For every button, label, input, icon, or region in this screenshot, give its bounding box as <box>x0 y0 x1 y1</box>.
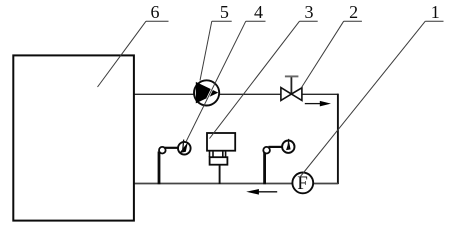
wire: bottom return pipe <box>134 183 338 185</box>
svg-text:6: 6 <box>151 2 160 22</box>
svg-text:1: 1 <box>431 2 440 22</box>
leader line 1 <box>300 21 425 177</box>
svg-text:4: 4 <box>254 2 263 22</box>
svg-text:F: F <box>297 173 308 194</box>
leader line 2 <box>302 21 344 87</box>
label 6 <box>146 2 169 22</box>
tank 6 <box>13 55 134 220</box>
leader line 3 <box>210 21 300 138</box>
flow arrow (leftward, bottom) <box>246 189 277 195</box>
gauge (unlabeled, right) <box>263 139 294 184</box>
label 3 <box>300 2 318 22</box>
label 2 <box>344 2 362 22</box>
svg-text:5: 5 <box>220 2 229 22</box>
leader line 5 <box>200 21 212 80</box>
wire: top supply pipe <box>134 93 338 95</box>
valve 2 <box>281 76 302 100</box>
flow meter 1 <box>292 173 313 195</box>
gauge 4 <box>159 140 191 185</box>
pump 5 <box>194 80 219 105</box>
label 4 <box>246 2 266 22</box>
flow arrow (rightward, top) <box>305 101 331 107</box>
sensor 3 <box>207 133 235 184</box>
leader line 4 (white halo crossing pump triangle) <box>186 21 246 142</box>
svg-text:2: 2 <box>349 2 358 22</box>
label 1 <box>425 2 443 22</box>
leader line 6 <box>98 21 147 87</box>
label 5 <box>212 2 232 22</box>
svg-text:3: 3 <box>305 2 314 22</box>
wire: right vertical pipe <box>337 94 339 185</box>
